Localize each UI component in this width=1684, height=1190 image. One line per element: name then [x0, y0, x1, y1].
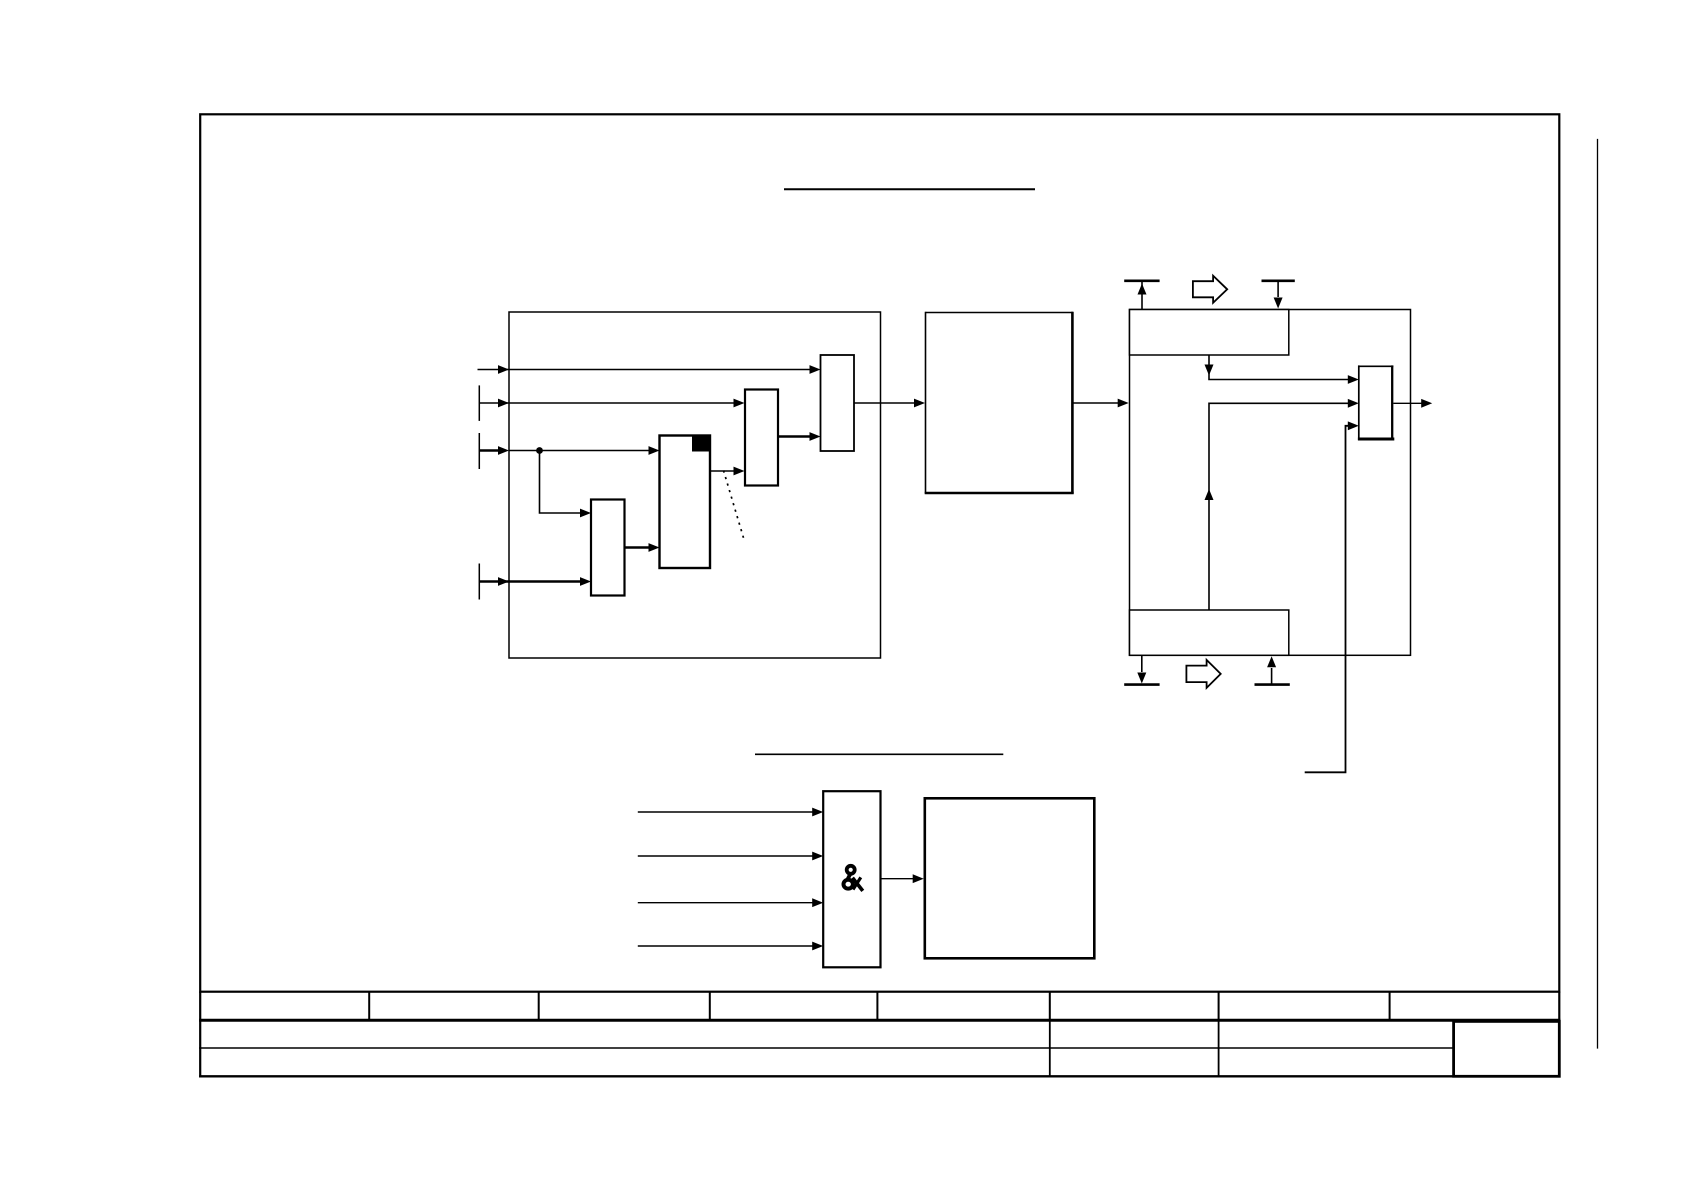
- header cell divider 3: [709, 992, 711, 1021]
- bottom left pin wire: [1141, 655, 1143, 672]
- wire gate output: [881, 878, 915, 880]
- top right pin bar: [1262, 279, 1295, 282]
- junction node: [536, 447, 543, 454]
- wire control register to buffer: [710, 470, 735, 472]
- arrowhead input 2 at block edge: [498, 399, 509, 408]
- title block right edge: [1558, 992, 1560, 1078]
- control register block: [660, 436, 711, 569]
- bottom right pin bar: [1255, 683, 1290, 686]
- arrowhead input 4 at divider: [580, 577, 591, 586]
- wire branch to divider: [540, 451, 583, 514]
- arrowhead gate output: [913, 874, 924, 883]
- arrowhead down at top right pin: [1274, 298, 1283, 309]
- mux block: [1358, 365, 1394, 440]
- header cell divider 2: [538, 992, 540, 1021]
- pin bar input 3: [478, 433, 480, 469]
- arrowhead divider to control register: [649, 543, 660, 552]
- AND gate label: [844, 866, 863, 891]
- wire buffer to output register: [778, 435, 811, 438]
- arrowhead gate input 2: [812, 852, 823, 861]
- arrowhead gate input 1: [812, 808, 823, 817]
- lower rows divider b: [1218, 1020, 1220, 1076]
- top left pin wire: [1141, 282, 1143, 310]
- header cell divider 1: [368, 992, 370, 1021]
- bottom right pin wire: [1271, 668, 1273, 685]
- feedback wire: [1305, 426, 1351, 773]
- arrowhead up at top left pin: [1138, 284, 1147, 295]
- top left pin bar: [1124, 279, 1159, 282]
- lower rows divider a: [1049, 1020, 1051, 1076]
- wire input 1: [478, 369, 812, 371]
- arrowhead gate input 4: [812, 942, 823, 951]
- arrowhead input 3 at control register: [649, 446, 660, 455]
- interrupt logic block: [925, 798, 1095, 958]
- title block row divider: [199, 1047, 1454, 1049]
- wire read buffer to mux: [1209, 403, 1350, 610]
- interface logic outer block: [509, 312, 881, 658]
- wire input 4: [479, 580, 582, 583]
- header cell divider 5: [1049, 992, 1051, 1021]
- arrowhead into mux input 3: [1348, 421, 1359, 430]
- arrowhead input 1 at register: [810, 365, 821, 374]
- dotted reference line: [724, 471, 745, 540]
- wire write buffer to mux: [1209, 355, 1350, 380]
- block arrow bottom: [1186, 660, 1220, 688]
- bottom left pin bar: [1124, 683, 1159, 686]
- bus interface outer block: [1130, 310, 1411, 656]
- wire mux output: [1393, 402, 1423, 404]
- wire divider to control register: [625, 546, 651, 549]
- arrowhead down from write buffer: [1205, 365, 1214, 376]
- wire input 2: [479, 402, 735, 404]
- arrowhead into buffer: [734, 467, 745, 476]
- AND gate U1: [823, 791, 880, 967]
- figure 2 title underline: [755, 753, 1003, 755]
- wire gate input 3: [638, 902, 814, 904]
- arrowhead up at bottom right pin: [1267, 656, 1276, 667]
- sheet right margin line: [1597, 139, 1599, 1049]
- figure 1 title underline: [784, 188, 1035, 190]
- arrowhead gate input 3: [812, 898, 823, 907]
- arrowhead into mux input 2: [1348, 399, 1359, 408]
- wire input 3 inner: [509, 450, 651, 452]
- sheet frame: [200, 114, 1559, 991]
- arrowhead up mid wire: [1205, 489, 1214, 500]
- arrowhead down at bottom left pin: [1137, 673, 1146, 684]
- arrowhead data output: [1421, 399, 1432, 408]
- header cell divider 6: [1218, 992, 1220, 1021]
- divider block: [591, 500, 625, 596]
- read buffer register: [1130, 610, 1289, 655]
- revision box: [1454, 1021, 1560, 1076]
- top right pin wire: [1277, 281, 1279, 297]
- arrowhead into mux input 1: [1348, 375, 1359, 384]
- pin bar input 2: [478, 385, 480, 421]
- arrowhead input 2 at register: [734, 399, 745, 408]
- arrowhead input 4 at block edge: [498, 577, 509, 586]
- arrowhead buffer to output register: [810, 432, 821, 441]
- write buffer register: [1130, 310, 1289, 356]
- wire gate input 1: [638, 811, 814, 813]
- header cell divider 7: [1389, 992, 1391, 1021]
- title block header bottom rule: [199, 1019, 1560, 1022]
- arrowhead branch at divider: [580, 509, 591, 518]
- wire state machine to bus block: [1073, 402, 1120, 404]
- state machine block: [925, 312, 1074, 494]
- wire input 3 stub: [479, 449, 500, 452]
- wire gate input 2: [638, 855, 814, 857]
- arrowhead into state machine: [914, 399, 925, 408]
- buffer register block: [745, 390, 778, 486]
- flag bit cell: [692, 436, 710, 452]
- arrowhead input 3 at block edge: [498, 446, 509, 455]
- title block bottom rule: [199, 1075, 1560, 1077]
- pin bar input 4: [478, 564, 480, 600]
- header cell divider 4: [876, 992, 878, 1021]
- arrowhead input 1 at block edge: [498, 365, 509, 374]
- wire output register to state machine: [854, 402, 916, 404]
- wire gate input 4: [638, 945, 814, 947]
- output register block: [821, 355, 855, 451]
- title block left edge: [199, 992, 201, 1078]
- arrowhead into bus block: [1118, 399, 1129, 408]
- block arrow top: [1193, 276, 1227, 303]
